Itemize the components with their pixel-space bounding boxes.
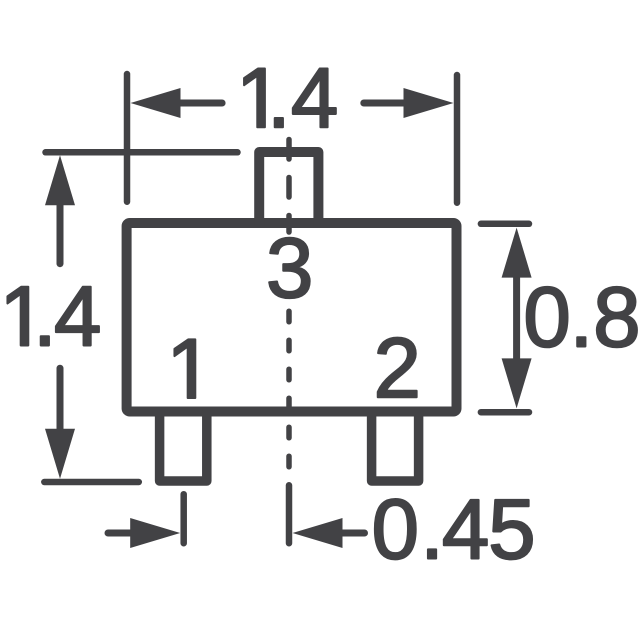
centerline solid bottom segment [286, 485, 293, 543]
right dim 0.8: shaft [513, 260, 520, 375]
pin number 1 [174, 339, 195, 398]
pin 2 outline [372, 409, 419, 481]
top dim: left extension line [124, 74, 131, 202]
right dim 0.8: bottom reference line [481, 409, 529, 416]
package body [127, 223, 457, 412]
label 1.4 left [7, 287, 98, 346]
right dim: up arrowhead [502, 228, 532, 278]
bottom dim 0.45: right arrow shaft [339, 530, 365, 537]
left dim: lower shaft [57, 368, 64, 433]
pin number 2 [378, 338, 417, 397]
top dim: right arrowhead [404, 88, 454, 118]
top dim: left arrowhead [131, 88, 181, 118]
label 0.8 right [527, 287, 637, 347]
left dim: top reference line [46, 149, 238, 156]
pin 1 outline [160, 409, 207, 481]
left dim: upper shaft [57, 198, 64, 264]
left dim: bottom reference line [44, 479, 139, 486]
white box behind pin 3 label [263, 236, 316, 305]
right dim: down arrowhead [502, 358, 532, 408]
bottom dim: left-pointing arrowhead [293, 518, 343, 548]
centerline dashed lower [286, 311, 292, 470]
top dim: right extension line [454, 75, 461, 203]
right dim 0.8: top reference line [481, 221, 529, 228]
left dim: down arrowhead [45, 429, 75, 479]
pin number 3 [269, 238, 309, 298]
label 1.4 top [244, 69, 336, 128]
top dim: left arrow shaft [150, 100, 222, 107]
tab pin 3 outline [259, 152, 318, 226]
top dim: right arrow shaft [364, 100, 440, 107]
bottom dim 0.45: left extension line [180, 494, 187, 543]
bottom dim: right-pointing arrowhead [130, 518, 180, 548]
centerline dashed upper [286, 140, 292, 233]
bottom dim 0.45: left arrow shaft [108, 530, 135, 537]
label 0.45 bottom [375, 499, 532, 559]
left dim: up arrowhead [45, 155, 75, 205]
